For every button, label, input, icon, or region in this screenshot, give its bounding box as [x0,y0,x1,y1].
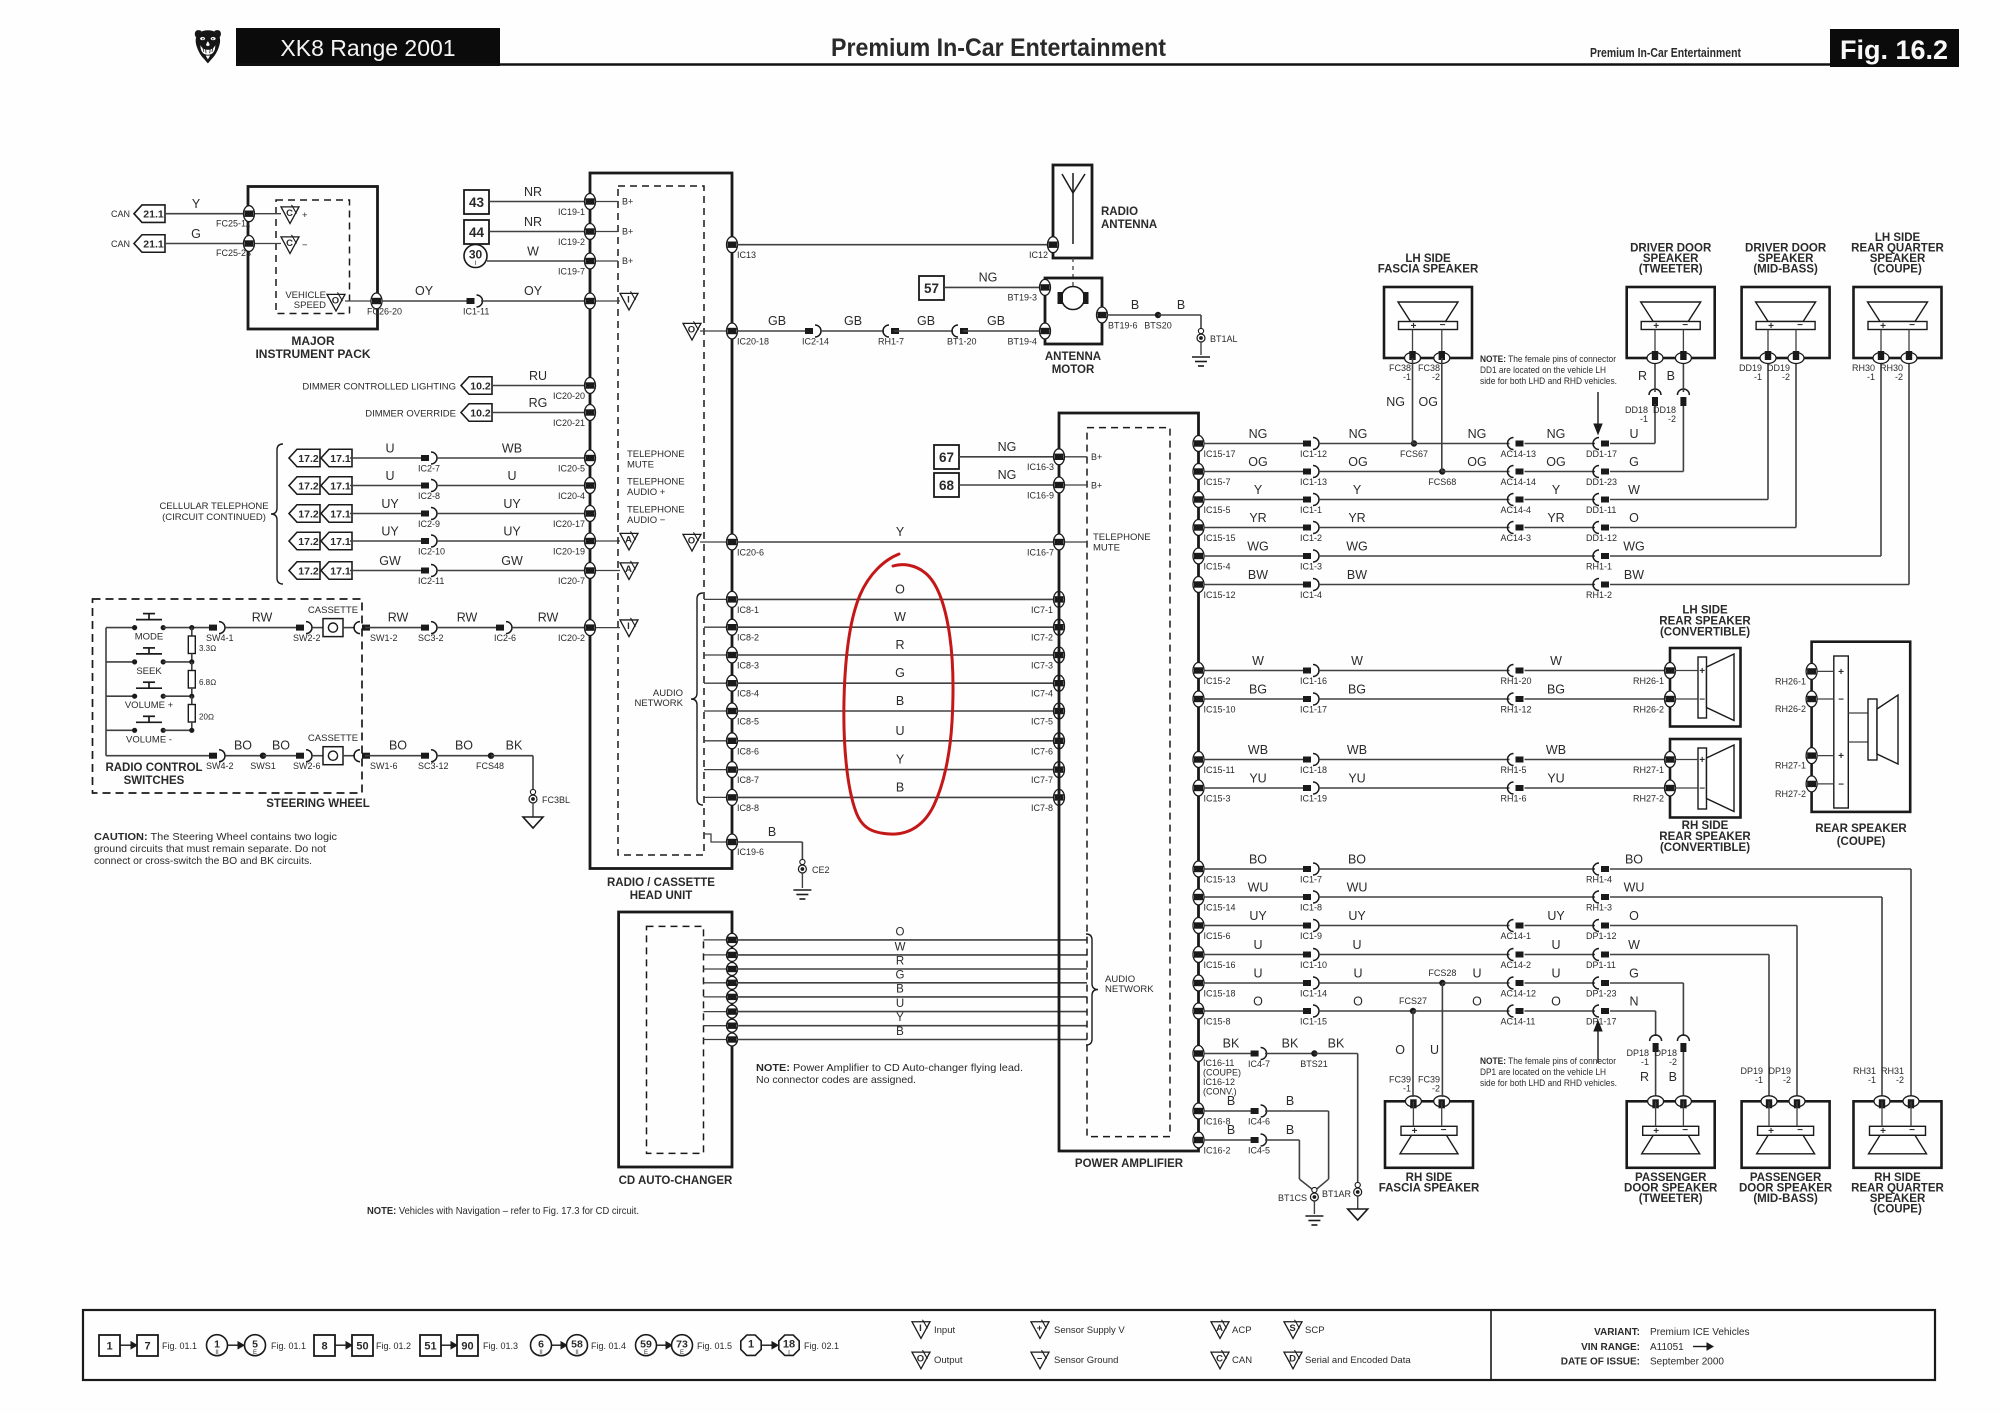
svg-text:SW2-6: SW2-6 [293,761,321,771]
svg-text:YU: YU [1249,772,1266,786]
connector IC2-10 [421,538,429,544]
pin on radio left edge y=385.5 [585,378,596,394]
svg-text:RW: RW [252,611,273,625]
svg-text:C: C [1216,1353,1223,1364]
wire BO SC3-12 to FCS48 [436,755,491,757]
svg-text:B: B [1667,369,1675,383]
svg-text:FASCIA SPEAKER: FASCIA SPEAKER [1378,264,1479,276]
svg-text:RH26-2: RH26-2 [1633,705,1664,715]
wire WG RH1-1 up to speaker x=1881 [1610,555,1881,557]
svg-text:NG: NG [1386,395,1405,409]
svg-text:1: 1 [748,1339,754,1351]
wire R DD18-1 to tweeter [1654,404,1656,405]
svg-text:NOTE: Vehicles with Navigation: NOTE: Vehicles with Navigation – refer t… [367,1205,639,1217]
wire O DD1-12 up to speaker x=1796 [1610,527,1796,529]
svg-text:FC26-20: FC26-20 [367,307,402,317]
pin cd changer row 6 [704,1011,727,1013]
svg-text:B: B [1227,1094,1235,1108]
svg-text:IC16-2: IC16-2 [1204,1146,1231,1156]
svg-text:IC8-3: IC8-3 [737,661,759,671]
wire W cd row 2 to amplifier [737,954,1087,956]
svg-text:CAN: CAN [111,239,130,249]
svg-text:-1: -1 [1867,372,1875,382]
svg-text:Premium In-Car Entertainment: Premium In-Car Entertainment [1590,45,1742,60]
connector IC1-15 [1303,1008,1311,1014]
svg-text:(COUPE): (COUPE) [1837,836,1886,848]
pin BT19-4 [1040,323,1051,339]
svg-text:−: − [1797,320,1803,331]
connector IC1-7 [1303,866,1311,872]
cd auto-changer inner dashed [647,926,704,1153]
svg-text:CASSETTE: CASSETTE [308,733,358,744]
svg-text:IC20-5: IC20-5 [558,464,585,474]
svg-text:IC20-20: IC20-20 [553,391,585,401]
wire B cd row 5 to amplifier [737,996,1087,998]
legend divider [1490,1310,1492,1380]
connector DD18-2 [1677,389,1689,395]
wire WB IC2-7 to IC20-5 [436,457,588,459]
svg-text:SW1-2: SW1-2 [370,633,398,643]
pin IC15-17 [1193,436,1204,452]
resistor 6.8 ohm [189,659,194,664]
svg-text:BT19-6: BT19-6 [1108,321,1138,331]
svg-text:-2: -2 [1668,414,1676,424]
svg-text:VARIANT:: VARIANT: [1594,1327,1640,1338]
svg-text:IC2-9: IC2-9 [418,519,440,529]
svg-text:U: U [1352,938,1361,952]
svg-text:connect or cross-switch the BO: connect or cross-switch the BO and BK ci… [94,855,312,867]
pin on radio left edge y=458 [585,450,596,466]
pin IC8-7 [704,769,726,771]
svg-text:Y: Y [896,753,905,767]
svg-text:DATE OF ISSUE:: DATE OF ISSUE: [1561,1357,1640,1368]
source ref 68 box [934,473,959,497]
svg-text:NOTE: Power Amplifier to CD Au: NOTE: Power Amplifier to CD Auto-changer… [756,1062,1023,1074]
connector IC2-11 [421,568,429,574]
connector AC14-3 [1516,525,1524,531]
wire BO SWS1 to SW2-6 [263,755,299,757]
svg-text:REAR SPEAKER: REAR SPEAKER [1815,823,1907,835]
resistor 20 ohm [189,694,194,699]
wire U FCS28 down to FC39-2 [1441,983,1443,1097]
svg-text:BG: BG [1348,683,1366,697]
svg-text:IC12: IC12 [1029,250,1048,260]
pin IC15-5 [1193,492,1204,508]
svg-text:Fig. 01.1: Fig. 01.1 [271,1341,306,1351]
svg-text:R: R [896,956,904,968]
svg-text:IC8-6: IC8-6 [737,746,759,756]
output triangle IC20-6 [683,534,701,551]
radio head unit inner dashed [618,186,704,855]
power amplifier box [1059,413,1199,1151]
svg-text:IC20-4: IC20-4 [558,491,585,501]
junction BTS20 [1155,312,1161,318]
pin IC16-2 [1193,1132,1204,1148]
svg-text:INSTRUMENT PACK: INSTRUMENT PACK [255,347,370,361]
svg-text:RH26-1: RH26-1 [1633,676,1664,686]
fuse ref 43 [464,190,489,214]
ACP triangle row IC20-19 [596,540,620,542]
svg-text:Premium In-Car Entertainment: Premium In-Car Entertainment [831,34,1167,62]
connector IC1-19 [1303,785,1311,791]
svg-text:W: W [894,610,906,624]
pin IC7-4 [1054,675,1065,691]
pin IC20-18 [727,323,738,339]
pin IC15-10 [1193,691,1204,707]
svg-text:B: B [896,780,904,794]
svg-text:DIMMER CONTROLLED LIGHTING: DIMMER CONTROLLED LIGHTING [302,382,456,393]
svg-text:−: − [1037,1353,1043,1364]
ref flags 17.2/17.1 row IC20-4 [289,477,320,495]
svg-text:-1: -1 [1755,1075,1763,1085]
svg-text:IC1-1: IC1-1 [1300,505,1322,515]
svg-text:RH27-2: RH27-2 [1633,794,1664,804]
speaker LH SIDE|REAR QUARTER|SPEAKER|(COUPE) [1854,287,1942,358]
svg-text:BK: BK [1282,1037,1299,1051]
svg-text:−: − [1699,695,1705,706]
svg-text:I: I [627,295,630,306]
svg-text:IC1-14: IC1-14 [1300,989,1327,999]
connector RH1-3 [1601,894,1609,900]
legend symbol CAN [1211,1352,1229,1369]
pin IC15-15 [1193,520,1204,536]
svg-text:DD1-12: DD1-12 [1586,533,1617,543]
svg-text:RG: RG [529,396,548,410]
svg-text:-1: -1 [1403,372,1411,382]
svg-text:5: 5 [252,1339,258,1351]
audio network brace (cd) [1086,934,1098,1045]
wire WB IC15-11 to IC1-18 [1204,759,1307,761]
svg-text:BK: BK [1223,1037,1240,1051]
svg-text:SPEED: SPEED [294,300,326,311]
svg-text:WB: WB [502,442,522,456]
svg-text:O: O [1472,995,1482,1009]
svg-text:TELEPHONE: TELEPHONE [627,477,685,488]
ground CE2 [800,859,805,864]
wire NR 44 to IC19-2 [489,231,588,233]
svg-text:59: 59 [640,1339,652,1351]
svg-text:57: 57 [924,281,939,296]
svg-text:17.2: 17.2 [298,453,319,465]
svg-text:POWER AMPLIFIER: POWER AMPLIFIER [1075,1158,1184,1170]
svg-text:AC14-12: AC14-12 [1501,989,1537,999]
svg-text:73: 73 [676,1339,688,1351]
header rule [236,63,1830,65]
svg-text:-1: -1 [1868,1075,1876,1085]
svg-text:YU: YU [1547,772,1564,786]
svg-text:IC16-3: IC16-3 [1027,462,1054,472]
svg-text:SW2-2: SW2-2 [293,633,321,643]
wire GB RH1-7 to BT1-20 [894,330,953,332]
pin IC15-4 [1193,548,1204,564]
svg-text:FCS28: FCS28 [1428,968,1456,978]
wire U AC14-12 to DP1-23 [1525,982,1596,984]
svg-text:IC15-11: IC15-11 [1204,765,1235,775]
svg-text:MODE: MODE [135,632,164,643]
pin cd changer row 3 [704,968,727,970]
svg-text:CAUTION: The Steering Wheel c: CAUTION: The Steering Wheel contains two… [94,831,337,843]
svg-text:U: U [1551,938,1560,952]
svg-text:IC20-21: IC20-21 [553,418,585,428]
svg-text:IC1-15: IC1-15 [1300,1017,1327,1027]
wire BO RH1-4 to corner x=1911 [1610,868,1911,870]
svg-text:+: + [1880,1126,1886,1137]
svg-text:VOLUME -: VOLUME - [126,734,172,745]
wire O FCS27 down to FC39-1 [1412,1011,1414,1097]
steering wheel dashed box [93,599,363,793]
svg-text:B: B [768,825,776,839]
svg-text:Fig. 16.2: Fig. 16.2 [1840,35,1948,65]
svg-text:OY: OY [415,284,434,298]
svg-text:IC15-3: IC15-3 [1204,794,1231,804]
wire R DP18-1 to tweeter [1655,1052,1657,1101]
svg-text:ANTENNA: ANTENNA [1045,351,1101,363]
svg-text:IC20-19: IC20-19 [553,547,585,557]
svg-text:B: B [896,983,904,995]
svg-text:+: + [1037,1323,1043,1334]
svg-text:IC19-6: IC19-6 [737,847,764,857]
wire O cd row 1 to amplifier [737,939,1087,941]
svg-text:90: 90 [461,1340,473,1352]
pin on radio left edge y=231.5 [585,224,596,240]
speaker PASSENGER|DOOR SPEAKER|(TWEETER) [1627,1101,1715,1168]
power amplifier inner dashed [1087,428,1170,1137]
connector IC2-9 [421,511,429,517]
switch MODE [106,627,135,629]
pin FC25-23 [244,236,255,252]
svg-text:RW: RW [388,611,409,625]
svg-text:Y: Y [1353,483,1362,497]
svg-text:IC20-18: IC20-18 [737,337,769,347]
svg-text:Y: Y [192,197,201,211]
svg-text:17.2: 17.2 [298,565,319,577]
svg-text:-1: -1 [1641,1057,1649,1067]
pin cd changer row 7 [704,1025,727,1027]
svg-text:−: − [1797,1125,1803,1136]
speaker DRIVER DOOR|SPEAKER|(MID-BASS) [1742,287,1830,358]
connector SC3-2 [421,625,429,631]
wire WG IC15-4 to IC1-3 [1204,555,1307,557]
svg-text:−: − [1699,784,1705,795]
wire U IC2-8 to IC20-4 [436,485,588,487]
svg-text:AC14-14: AC14-14 [1501,477,1537,487]
svg-text:−: − [1838,779,1844,790]
svg-text:VIN RANGE:: VIN RANGE: [1581,1342,1640,1353]
svg-text:W: W [1628,483,1640,497]
svg-text:WU: WU [1624,881,1645,895]
svg-text:SW1-6: SW1-6 [370,761,398,771]
svg-text:BK: BK [1328,1037,1345,1051]
svg-text:HEAD UNIT: HEAD UNIT [630,890,693,902]
connector SW4-1 [209,625,217,631]
svg-text:GB: GB [987,314,1005,328]
wire BW IC15-12 to IC1-4 [1204,584,1307,586]
wire YU IC15-3 to IC1-19 [1204,787,1307,789]
wire BK IC16-11 to IC4-7 [1204,1053,1255,1055]
svg-text:A: A [625,564,632,575]
figure number box Fig. 16.2 [1830,29,1959,67]
svg-text:DP1 are located on the vehicle: DP1 are located on the vehicle LH [1480,1067,1606,1078]
connector IC1-11 [467,298,475,304]
svg-text:FCS68: FCS68 [1428,477,1456,487]
svg-text:IC15-15: IC15-15 [1204,533,1236,543]
ref flags 17.2/17.1 row IC20-17 [289,505,320,523]
svg-text:VOLUME +: VOLUME + [125,700,174,711]
wire U IC15-16 to IC1-10 [1204,954,1307,956]
pin on radio left edge y=541 [585,533,596,549]
wire BO IC15-13 to IC1-7 [1204,868,1307,870]
connector AC14-12 [1516,980,1524,986]
svg-text:+: + [1768,321,1774,332]
connector RH1-20 [1516,668,1524,674]
svg-text:ANTENNA: ANTENNA [1101,219,1157,231]
svg-text:WB: WB [1347,743,1367,757]
svg-text:IC15-12: IC15-12 [1204,590,1236,600]
svg-text:IC7-3: IC7-3 [1031,661,1053,671]
CAN - symbol [255,243,281,245]
svg-text:SWITCHES: SWITCHES [124,775,185,787]
CAN + symbol [255,213,281,215]
wire O IC15-8 to IC1-15 [1204,1010,1307,1012]
svg-text:UY: UY [381,525,399,539]
svg-text:BTS20: BTS20 [1144,321,1172,331]
legend symbol SCP [1284,1322,1302,1339]
svg-text:IC19-2: IC19-2 [558,237,585,247]
connector IC4-5 [1251,1137,1259,1143]
pin IC16-9 [1054,477,1065,493]
wire Y IC1-1 onward [1318,499,1510,501]
wire IC13 to IC12 (antenna feed) [737,244,1047,246]
svg-text:YR: YR [1348,511,1365,525]
wire B DD18-2 to tweeter [1682,358,1684,392]
svg-text:17.1: 17.1 [330,565,351,577]
svg-text:43: 43 [469,195,485,210]
svg-text:O: O [688,325,695,336]
svg-text:RH1-5: RH1-5 [1501,765,1527,775]
svg-text:IC7-7: IC7-7 [1031,775,1053,785]
wires join to BT1CS [1299,1179,1314,1191]
svg-text:IC7-2: IC7-2 [1031,633,1053,643]
svg-text:Fig. 02.1: Fig. 02.1 [804,1341,839,1351]
wire GW IC2-11 to IC20-7 [436,570,588,572]
wire RW IC2-6 to IC20-2 [511,627,588,629]
wire YU IC1-19 to RH1-6 [1318,787,1510,789]
wire W vertical to DD19-1 [1767,358,1769,500]
svg-text:W: W [527,245,539,259]
svg-text:U: U [1253,938,1262,952]
svg-text:II: II [215,1350,219,1356]
svg-text:Y: Y [896,1012,904,1024]
connector DD1-17 [1601,441,1609,447]
svg-text:CASSETTE: CASSETTE [308,605,358,616]
svg-text:AC14-11: AC14-11 [1501,1017,1536,1027]
svg-text:BO: BO [234,739,252,753]
svg-text:YR: YR [1249,511,1266,525]
fuse ref 44 [464,220,489,244]
wire O AC14-11 to DP1-17 [1525,1010,1596,1012]
pin IC8-6 [704,740,726,742]
connector IC1-2 [1303,525,1311,531]
wire CAN Y to FC25-11 [165,213,248,215]
connector SW1-6 [362,753,370,759]
wire B DP18-2 to tweeter [1682,1052,1684,1101]
wire YU RH1-6 to RH27-2 [1525,787,1667,789]
legend item squares 8-50 Fig 01.2 [314,1335,335,1356]
connector IC1-16 [1303,668,1311,674]
svg-text:BTS21: BTS21 [1300,1059,1328,1069]
source ref 67 box [934,445,959,469]
svg-text:−: − [302,240,308,251]
wire BK IC4-7 to BTS21 [1265,1053,1314,1055]
wire BW vertical to RH30-2 [1908,358,1910,585]
svg-text:Fig. 01.5: Fig. 01.5 [697,1341,732,1351]
wire Y IC15-5 to IC1-1 [1204,499,1307,501]
pin IC15-7 [1193,464,1204,480]
svg-text:AUDIO −: AUDIO − [627,515,666,526]
svg-text:CELLULAR TELEPHONE: CELLULAR TELEPHONE [159,501,268,512]
legend item circles 1-5 Fig 01.1 [207,1335,228,1356]
svg-text:AC14-3: AC14-3 [1501,533,1532,543]
svg-text:O: O [1353,995,1363,1009]
svg-text:Fig. 01.1: Fig. 01.1 [162,1341,197,1351]
svg-text:MUTE: MUTE [627,460,654,471]
svg-text:O: O [688,536,695,547]
wire O FCS27 to AC14-11 [1413,1010,1510,1012]
wire B IC8-5 to IC7-5 [737,710,1055,712]
svg-text:W: W [1550,654,1562,668]
svg-text:(TWEETER): (TWEETER) [1639,264,1703,276]
svg-text:No connector codes are assigne: No connector codes are assigned. [756,1074,916,1086]
svg-text:OG: OG [1467,455,1486,469]
svg-text:O: O [896,926,905,938]
svg-text:IC15-4: IC15-4 [1204,562,1231,572]
svg-text:B: B [1286,1094,1294,1108]
svg-text:Y: Y [896,525,905,539]
svg-text:B+: B+ [1091,452,1102,462]
wire YR IC15-15 to IC1-2 [1204,527,1307,529]
wire U to IC2-8 [350,485,424,487]
svg-text:CD AUTO-CHANGER: CD AUTO-CHANGER [619,1175,733,1187]
svg-text:IC15-16: IC15-16 [1204,960,1236,970]
svg-text:RH26-2: RH26-2 [1775,704,1806,714]
pin IC8-8 [704,796,726,798]
svg-text:O: O [1629,511,1639,525]
wire WB RH1-5 to RH27-1 [1525,759,1667,761]
svg-text:+: + [1699,755,1705,766]
svg-text:IC2-8: IC2-8 [418,491,440,501]
svg-text:IC20-2: IC20-2 [558,633,585,643]
ground BT1CS [1312,1187,1317,1192]
wire W corner down to DP19-1 [1768,955,1770,1098]
svg-text:Input: Input [934,1325,955,1336]
svg-text:RADIO / CASSETTE: RADIO / CASSETTE [607,877,715,889]
wire WG vertical to RH30-1 [1880,358,1882,556]
pin IC7-7 [1054,762,1065,778]
wire W RH1-20 to RH26-1 [1525,670,1667,672]
connector DD1-11 [1601,497,1609,503]
svg-text:IC1-2: IC1-2 [1300,533,1322,543]
connector DD18-1 [1649,389,1661,395]
junction FCS48 [488,753,494,759]
svg-text:+: + [1412,1126,1418,1137]
svg-text:NOTE: The female pins of conne: NOTE: The female pins of connector [1480,354,1616,365]
pin on radio left edge y=570.5 [585,563,596,579]
svg-text:NR: NR [524,185,542,199]
wire RW SW1-2 to SC3-2 [365,627,424,629]
wire G cd row 4 to amplifier [737,982,1087,984]
svg-text:DP1-23: DP1-23 [1586,989,1617,999]
svg-text:IC20-17: IC20-17 [553,519,585,529]
